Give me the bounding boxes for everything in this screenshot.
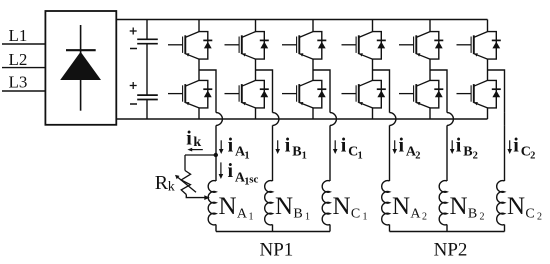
svg-text:N: N xyxy=(333,193,351,220)
label NC1 xyxy=(333,193,368,223)
label NA1 xyxy=(219,193,254,223)
wire Q12 (leg 6 bottom) collector loop xyxy=(488,80,497,108)
svg-text:i: i xyxy=(228,160,234,182)
current arrow ik xyxy=(187,148,202,152)
label iA1 xyxy=(228,135,250,162)
svg-text:N: N xyxy=(450,193,468,220)
wire Q11 (leg 6 top) collector loop xyxy=(488,32,497,59)
diode D4 freewheel xyxy=(260,89,269,97)
svg-text:N: N xyxy=(392,193,410,220)
svg-text:R: R xyxy=(155,172,169,194)
wire L1 input xyxy=(2,43,45,45)
svg-text:2: 2 xyxy=(530,150,535,161)
label NC2 xyxy=(507,193,542,223)
svg-text:B: B xyxy=(468,206,477,221)
wire NA2 bottom tail xyxy=(389,225,391,232)
svg-text:N: N xyxy=(507,193,525,220)
node leg 6 collector xyxy=(487,20,489,32)
svg-text:1: 1 xyxy=(363,211,368,222)
wire leg 5 crossover hop xyxy=(447,113,453,126)
diode D10 freewheel xyxy=(434,89,443,97)
current arrow iC2 xyxy=(507,140,512,154)
wire leg 4 crossover hop xyxy=(390,113,396,126)
wire Q8 (leg 4 bottom) collector loop xyxy=(373,80,382,108)
inductor winding NC1 xyxy=(322,181,330,225)
wire Q4 (leg 2 bottom) gate stub xyxy=(225,93,240,95)
svg-text:B: B xyxy=(293,206,302,221)
wire capacitor branch lower xyxy=(146,100,148,120)
wire L3 input xyxy=(2,90,45,92)
wire DC- bottom rail xyxy=(116,118,487,120)
label iA2 xyxy=(399,135,421,162)
wire Q5 (leg 3 top) gate stub xyxy=(282,44,297,46)
svg-text:i: i xyxy=(399,135,405,157)
svg-text:1: 1 xyxy=(249,211,254,222)
svg-text:i: i xyxy=(513,135,519,157)
svg-text:i: i xyxy=(228,135,234,157)
label iC1 xyxy=(341,135,363,162)
transistor Q7 (leg 4 top) IGBT xyxy=(356,32,372,59)
wire leg 3 output tap xyxy=(313,70,330,113)
label iC2 xyxy=(513,135,535,162)
transistor Q3 (leg 2 top) IGBT xyxy=(239,32,255,59)
wire leg 5 output tap xyxy=(430,70,447,113)
diode D8 freewheel xyxy=(377,89,386,97)
wire Q1 (leg 1 top) collector loop xyxy=(199,32,208,59)
Rk variable arrow xyxy=(175,175,196,192)
svg-text:i: i xyxy=(456,135,462,157)
svg-text:L3: L3 xyxy=(9,73,28,92)
current arrow iC1 xyxy=(333,140,338,154)
label NB2 xyxy=(450,193,485,223)
wire capacitor midpoint xyxy=(146,44,148,95)
current arrow iA2 xyxy=(392,140,397,154)
transistor Q1 (leg 1 top) IGBT xyxy=(183,32,199,59)
wire leg 3 crossover hop xyxy=(330,113,336,126)
wire Q2 (leg 1 bottom) collector loop xyxy=(199,80,208,108)
svg-text:2: 2 xyxy=(537,211,542,222)
inductor winding NA2 xyxy=(382,181,390,225)
svg-text:L1: L1 xyxy=(9,26,28,45)
wire leg 4 phase feed xyxy=(389,125,391,181)
wire Q1 (leg 1 top) gate stub xyxy=(168,44,183,46)
diode D2 freewheel xyxy=(203,89,212,97)
transistor Q8 (leg 4 bottom) IGBT xyxy=(356,80,372,108)
three-phase rectifier block xyxy=(45,11,116,125)
svg-text:k: k xyxy=(193,135,201,150)
wire leg 5 phase feed xyxy=(446,125,448,181)
transistor Q12 (leg 6 bottom) IGBT xyxy=(471,80,487,108)
wire Q10 (leg 5 bottom) collector loop xyxy=(430,80,439,108)
svg-text:sc: sc xyxy=(249,173,258,185)
wire leg 2 bottom emitter xyxy=(255,108,257,119)
wire NA1 bottom tail xyxy=(215,225,217,232)
svg-text:N: N xyxy=(219,193,237,220)
wire Rk to winding tap arrow xyxy=(186,195,210,201)
svg-text:2: 2 xyxy=(415,150,420,161)
svg-text:1: 1 xyxy=(358,150,363,161)
wire NC1 bottom tail xyxy=(329,225,331,232)
wire leg 3 phase feed xyxy=(329,125,331,181)
inductor winding NB2 xyxy=(439,181,447,225)
wire Q12 (leg 6 bottom) gate stub xyxy=(457,93,472,95)
wire Q6 (leg 3 bottom) gate stub xyxy=(282,93,297,95)
wire leg 3 bottom emitter xyxy=(312,108,314,119)
wire NC2 bottom tail xyxy=(504,225,506,232)
node leg 5 collector xyxy=(429,20,431,32)
label iA1sc xyxy=(228,160,259,187)
node leg 2 collector xyxy=(255,20,257,32)
svg-text:1: 1 xyxy=(302,150,307,161)
capacitor C1 (upper DC link) xyxy=(137,39,158,43)
C1 minus sign xyxy=(130,48,137,50)
svg-text:B: B xyxy=(463,144,472,159)
transistor Q2 (leg 1 bottom) IGBT xyxy=(183,80,199,108)
C2 plus sign xyxy=(130,82,137,89)
wire NP1 star bus xyxy=(216,231,330,233)
wire Q11 (leg 6 top) gate stub xyxy=(457,44,472,46)
wire leg 2 phase feed xyxy=(272,125,274,181)
C2 minus sign xyxy=(130,103,137,105)
wire leg 2 midpoint xyxy=(255,59,257,80)
wire Q3 (leg 2 top) collector loop xyxy=(256,32,265,59)
wire capacitor branch upper xyxy=(146,20,148,40)
svg-text:A: A xyxy=(410,206,421,221)
label iB2 xyxy=(456,135,478,162)
wire Q5 (leg 3 top) collector loop xyxy=(313,32,322,59)
current arrow iB2 xyxy=(450,140,455,154)
wire NB1 bottom tail xyxy=(272,225,274,232)
svg-text:NP2: NP2 xyxy=(434,239,468,260)
wire NB2 bottom tail xyxy=(446,225,448,232)
label NA2 xyxy=(392,193,427,223)
wire Q8 (leg 4 bottom) gate stub xyxy=(342,93,357,95)
wire leg 4 output tap xyxy=(373,70,390,113)
wire Q9 (leg 5 top) gate stub xyxy=(399,44,414,46)
wire NP2 star bus xyxy=(390,231,505,233)
wire Q10 (leg 5 bottom) gate stub xyxy=(399,93,414,95)
svg-text:C: C xyxy=(351,206,360,221)
wire leg 1 output tap xyxy=(199,70,216,113)
svg-text:NP1: NP1 xyxy=(260,239,294,260)
wire Q9 (leg 5 top) collector loop xyxy=(430,32,439,59)
diode D1 freewheel xyxy=(203,40,212,48)
inductor winding NB1 xyxy=(265,181,273,225)
wire leg 6 output drop xyxy=(504,113,506,126)
wire leg 2 crossover hop xyxy=(273,113,279,126)
wire leg 4 midpoint xyxy=(372,59,374,80)
node leg 3 collector xyxy=(312,20,314,32)
label Rk xyxy=(155,172,175,194)
diode D3 freewheel xyxy=(260,40,269,48)
svg-text:2: 2 xyxy=(422,211,427,222)
inductor winding NC2 xyxy=(497,181,505,225)
wire leg 6 midpoint xyxy=(487,59,489,80)
diode D7 freewheel xyxy=(377,40,386,48)
wire Q2 (leg 1 bottom) gate stub xyxy=(168,93,183,95)
svg-text:A: A xyxy=(237,206,248,221)
svg-text:i: i xyxy=(186,127,192,149)
wire Rk branch top xyxy=(185,154,216,156)
wire leg 1 bottom emitter xyxy=(198,108,200,119)
wire DC+ top rail xyxy=(116,19,487,21)
transistor Q5 (leg 3 top) IGBT xyxy=(297,32,313,59)
junction node A1 tap xyxy=(214,153,218,157)
wire leg 2 output tap xyxy=(256,70,273,113)
wire L2 input xyxy=(2,67,45,69)
transistor Q9 (leg 5 top) IGBT xyxy=(414,32,430,59)
svg-text:1: 1 xyxy=(244,150,249,161)
svg-text:N: N xyxy=(275,193,293,220)
capacitor C2 (lower DC link) xyxy=(137,95,158,99)
svg-text:2: 2 xyxy=(473,150,478,161)
wire leg 6 output tap xyxy=(488,70,505,113)
wire Q6 (leg 3 bottom) collector loop xyxy=(313,80,322,108)
wire Q7 (leg 4 top) gate stub xyxy=(342,44,357,46)
C1 plus sign xyxy=(130,28,137,35)
svg-text:i: i xyxy=(341,135,347,157)
transistor Q6 (leg 3 bottom) IGBT xyxy=(297,80,313,108)
current arrow iA1sc xyxy=(219,162,224,179)
svg-text:1: 1 xyxy=(305,211,310,222)
wire leg 4 bottom emitter xyxy=(372,108,374,119)
inductor winding NA1 xyxy=(208,181,216,225)
wire leg 6 phase feed xyxy=(504,125,506,181)
current arrow iB1 xyxy=(275,140,280,154)
transistor Q4 (leg 2 bottom) IGBT xyxy=(239,80,255,108)
wire leg 3 midpoint xyxy=(312,59,314,80)
svg-text:B: B xyxy=(292,144,301,159)
diode D5 freewheel xyxy=(317,40,326,48)
wire Q4 (leg 2 bottom) collector loop xyxy=(256,80,265,108)
wire Q3 (leg 2 top) gate stub xyxy=(225,44,240,46)
svg-text:C: C xyxy=(525,206,534,221)
transistor Q10 (leg 5 bottom) IGBT xyxy=(414,80,430,108)
diode D12 freewheel xyxy=(492,89,501,97)
svg-text:i: i xyxy=(285,135,291,157)
wire leg 5 midpoint xyxy=(429,59,431,80)
wire leg 1 crossover hop xyxy=(216,113,222,126)
wire leg 6 bottom emitter xyxy=(487,108,489,119)
label NB1 xyxy=(275,193,310,223)
svg-text:k: k xyxy=(168,179,175,194)
svg-text:L2: L2 xyxy=(9,50,28,69)
transistor Q11 (leg 6 top) IGBT xyxy=(471,32,487,59)
diode D6 freewheel xyxy=(317,89,326,97)
current arrow iA1 xyxy=(219,140,224,154)
resistor Rk xyxy=(181,171,190,195)
wire leg 1 phase feed xyxy=(215,125,217,181)
node leg 4 collector xyxy=(372,20,374,32)
wire leg 5 bottom emitter xyxy=(429,108,431,119)
diode D9 freewheel xyxy=(434,40,443,48)
label ik xyxy=(186,127,201,149)
wire Rk branch vertical xyxy=(184,155,186,171)
svg-text:2: 2 xyxy=(480,211,485,222)
wire leg 1 midpoint xyxy=(198,59,200,80)
rectifier diode symbol xyxy=(60,25,101,111)
node leg 1 collector xyxy=(198,20,200,32)
label iB1 xyxy=(285,135,307,162)
wire Q7 (leg 4 top) collector loop xyxy=(373,32,382,59)
diode D11 freewheel xyxy=(492,40,501,48)
